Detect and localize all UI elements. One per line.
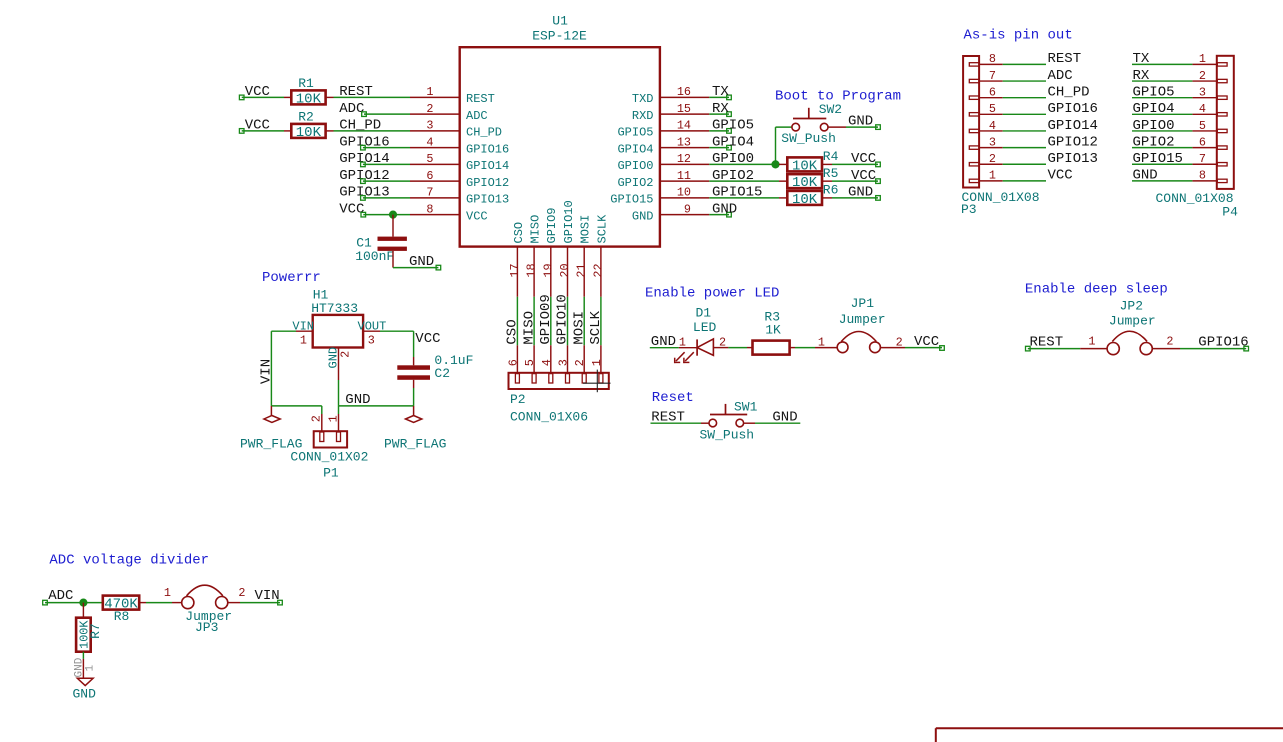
svg-text:3: 3 (989, 135, 996, 149)
resistor R6 (779, 183, 838, 208)
svg-text:MISO: MISO (529, 215, 543, 244)
svg-text:5: 5 (989, 102, 996, 116)
svg-text:SW_Push: SW_Push (700, 427, 755, 442)
node ADC label (divider) (43, 588, 74, 605)
jumper JP3 (164, 585, 246, 635)
P3 pin 6 CH_PD (979, 85, 1003, 99)
P4 pin 7 GPIO15 (1192, 152, 1216, 166)
wire H1 GND down (338, 380, 340, 406)
svg-text:2: 2 (309, 415, 323, 422)
svg-text:GPIO5: GPIO5 (617, 126, 653, 140)
P2 pin 1 (590, 345, 604, 373)
svg-text:SW2: SW2 (819, 102, 842, 117)
wire pin 10 to R6 (709, 197, 779, 199)
svg-text:12: 12 (677, 152, 691, 166)
P4 pin 6 GPIO2 (1192, 135, 1216, 149)
svg-text:GND: GND (632, 209, 654, 223)
svg-text:15: 15 (677, 102, 691, 116)
wire TX to P4 (1132, 63, 1192, 65)
wire ADC to R8 (45, 602, 103, 604)
U1 pin 6 GPIO12 (410, 169, 509, 190)
svg-text:6: 6 (1199, 135, 1206, 149)
jumper JP2 (1080, 298, 1180, 354)
svg-text:1K: 1K (765, 323, 781, 338)
svg-text:1: 1 (1199, 52, 1206, 66)
power label GND (R6) (848, 185, 880, 201)
svg-text:Reset: Reset (652, 390, 694, 406)
svg-text:REST: REST (1048, 51, 1082, 67)
svg-text:GPIO5: GPIO5 (712, 118, 754, 134)
power label VCC (R1) (239, 84, 270, 100)
resistor R2 (284, 110, 334, 141)
U1 pin 21 MOSI (575, 215, 593, 297)
svg-text:1: 1 (300, 334, 307, 348)
svg-text:VCC: VCC (851, 168, 876, 184)
U1 pin 12 GPIO0 (617, 152, 709, 173)
svg-text:GPIO4: GPIO4 (712, 134, 754, 150)
P2 pin 2 (573, 345, 587, 373)
U1 pin 13 GPIO4 (617, 135, 709, 156)
svg-text:GPIO2: GPIO2 (617, 176, 653, 190)
svg-text:100nF: 100nF (355, 249, 394, 264)
resistor R4 (779, 149, 839, 174)
svg-text:JP3: JP3 (195, 620, 218, 635)
node GPIO14 wire to pin 5 (339, 151, 410, 167)
svg-text:VCC: VCC (415, 331, 440, 347)
svg-text:2: 2 (989, 152, 996, 166)
svg-text:P2: P2 (510, 392, 526, 407)
wire VCC to R1 (242, 96, 284, 98)
node GPIO16 wire to pin 4 (339, 134, 410, 150)
wire P3 to ADC (1003, 80, 1046, 82)
U1 pin 5 GPIO14 (410, 152, 509, 173)
connector P1 CONN_01X02 body (314, 431, 347, 447)
svg-text:4: 4 (1199, 102, 1206, 116)
U1 pin 2 ADC (410, 102, 488, 123)
svg-text:GPIO0: GPIO0 (1133, 118, 1175, 134)
svg-text:LED: LED (693, 320, 717, 335)
svg-text:SCLK: SCLK (588, 310, 604, 344)
P3 pin 3 GPIO12 (979, 135, 1003, 149)
svg-text:GPIO10: GPIO10 (562, 200, 576, 243)
svg-text:ADC: ADC (339, 101, 364, 117)
wire R6 to GND (832, 197, 878, 199)
wire P3 to GPIO14 (1003, 130, 1046, 132)
svg-text:6: 6 (989, 85, 996, 99)
svg-text:Jumper: Jumper (1109, 313, 1156, 328)
wire junction to SW2 (776, 127, 793, 164)
capacitor C2 (397, 353, 473, 381)
svg-text:5: 5 (523, 359, 537, 366)
svg-text:14: 14 (677, 119, 691, 133)
wire GND to P4 (1132, 180, 1192, 182)
P1 pin 2 (309, 406, 323, 431)
svg-text:GPIO9: GPIO9 (545, 207, 559, 243)
node RX wire from pin 15 (709, 101, 731, 117)
wire JP1 to VCC (905, 347, 942, 349)
wire R5 to VCC (832, 180, 878, 182)
wire GND rail right segment (339, 405, 414, 407)
svg-text:MOSI: MOSI (579, 215, 593, 244)
wire P3 to GPIO13 (1003, 163, 1046, 165)
U1 pin 16 TXD (632, 85, 709, 106)
U1 pin 20 GPIO10 (558, 200, 576, 297)
svg-text:1: 1 (327, 415, 341, 422)
ground label GND (SW2) (848, 114, 880, 130)
svg-text:R4: R4 (823, 149, 839, 164)
node GPIO09 vertical wire (538, 294, 554, 345)
svg-text:VCC: VCC (466, 209, 488, 223)
svg-text:TX: TX (712, 84, 729, 100)
U1 pin 11 GPIO2 (617, 169, 709, 190)
svg-text:GPIO14: GPIO14 (466, 159, 509, 173)
wire D1 to R3 (728, 347, 747, 349)
svg-text:3: 3 (368, 334, 375, 348)
ground label GND (LED) (650, 334, 679, 350)
svg-text:7: 7 (989, 69, 996, 83)
wire GPIO15 to P4 (1132, 163, 1192, 165)
svg-text:GND: GND (73, 687, 97, 702)
svg-text:GPIO2: GPIO2 (1133, 134, 1175, 150)
svg-text:VCC: VCC (914, 334, 939, 350)
jumper JP1 (815, 296, 905, 353)
power label VCC (R5) (851, 168, 880, 184)
H1 pin 2 GND (326, 347, 352, 380)
wire GPIO5 to P4 (1132, 97, 1192, 99)
wire REST to JP2 (1028, 348, 1080, 350)
junction at VCC pin 8 (389, 211, 397, 219)
svg-text:GPIO16: GPIO16 (1048, 101, 1098, 117)
wire P3 to CH_PD (1003, 97, 1046, 99)
svg-text:GPIO16: GPIO16 (466, 142, 509, 156)
node CSO vertical wire (505, 297, 521, 346)
svg-text:ADC: ADC (466, 109, 488, 123)
node REST wire to pin 1 (334, 84, 411, 100)
svg-text:11: 11 (677, 169, 691, 183)
resistor R8 (103, 596, 146, 625)
svg-text:GPIO15: GPIO15 (610, 193, 653, 207)
svg-text:VIN: VIN (255, 588, 280, 604)
wire RX to P4 (1132, 80, 1192, 82)
svg-text:CSO: CSO (505, 319, 521, 344)
svg-text:1: 1 (1088, 335, 1095, 349)
svg-text:2: 2 (338, 351, 352, 358)
svg-text:9: 9 (684, 202, 691, 216)
svg-text:5: 5 (1199, 119, 1206, 133)
svg-text:R1: R1 (298, 76, 314, 91)
svg-text:GPIO15: GPIO15 (712, 185, 762, 201)
svg-text:GPIO15: GPIO15 (1133, 151, 1183, 167)
wire VCC down to C2 (413, 331, 415, 365)
svg-text:GND: GND (409, 254, 434, 270)
svg-text:1: 1 (818, 336, 825, 350)
connector P4 CONN_01X08 body (1217, 56, 1234, 189)
resistor R1 (284, 76, 334, 107)
svg-text:3: 3 (426, 119, 433, 133)
svg-text:10K: 10K (296, 125, 322, 141)
svg-text:As-is pin out: As-is pin out (964, 27, 1073, 43)
svg-text:RX: RX (1133, 68, 1150, 84)
node ADC wire to pin 2 (339, 101, 410, 117)
wire SW2 to GND (828, 126, 878, 128)
connector P2 CONN_01X06 body (509, 373, 609, 389)
svg-text:8: 8 (989, 52, 996, 66)
svg-text:8: 8 (1199, 169, 1206, 183)
node MISO vertical wire (521, 297, 537, 346)
junction GPIO0 (771, 160, 779, 168)
P2 pin 4 (540, 345, 554, 373)
wire P3 to GPIO16 (1003, 113, 1046, 115)
P4 pin 3 GPIO5 (1192, 85, 1216, 99)
node GPIO12 wire to pin 6 (339, 168, 410, 184)
svg-text:GND: GND (848, 185, 873, 201)
op-amp U1 ESP-12E body (460, 47, 660, 246)
svg-text:SW1: SW1 (734, 400, 758, 415)
svg-text:21: 21 (575, 263, 589, 277)
node GPIO13 wire to pin 7 (339, 185, 410, 201)
P2 pin 3 (557, 345, 571, 373)
wire GPIO0 to P4 (1132, 130, 1192, 132)
H1 pin 3 VOUT (358, 320, 387, 348)
svg-text:2: 2 (573, 359, 587, 366)
U1 pin 10 GPIO15 (610, 186, 709, 207)
P4 pin 2 RX (1192, 69, 1216, 83)
wire VOUT to VCC (380, 330, 414, 332)
svg-text:6: 6 (426, 169, 433, 183)
svg-text:VCC: VCC (1048, 168, 1073, 184)
svg-text:1: 1 (426, 85, 433, 99)
svg-text:GND: GND (848, 114, 873, 130)
wire GND to D1 (679, 347, 697, 349)
title block frame corner (936, 728, 1283, 742)
P4 pin 8 GND (1192, 169, 1216, 183)
wire VCC to R2 (242, 130, 284, 132)
svg-text:2: 2 (1166, 335, 1173, 349)
U1 pin 14 GPIO5 (617, 119, 709, 140)
P1 pin 1 (327, 406, 341, 431)
cursor crosshair (583, 370, 611, 393)
svg-text:1: 1 (164, 586, 171, 600)
svg-text:2: 2 (719, 336, 726, 350)
P3 pin 2 GPIO13 (979, 152, 1003, 166)
node CH_PD wire to pin 3 (334, 118, 411, 134)
svg-text:7: 7 (1199, 152, 1206, 166)
U1 pin 7 GPIO13 (410, 186, 509, 207)
wire JP3 to VIN (240, 602, 280, 604)
svg-text:R5: R5 (823, 166, 839, 181)
svg-text:REST: REST (339, 84, 373, 100)
svg-text:P3: P3 (961, 202, 977, 217)
junction ADC divider (79, 599, 87, 607)
svg-text:GPIO4: GPIO4 (1133, 101, 1175, 117)
wire VIN left and down (271, 331, 296, 406)
wire junction down to R7 (82, 603, 84, 618)
svg-text:2: 2 (896, 336, 903, 350)
P3 pin 4 GPIO14 (979, 119, 1003, 133)
wire JP2 to GPIO16 (1180, 348, 1246, 350)
svg-text:SW_Push: SW_Push (781, 131, 836, 146)
power label VCC (R4) (851, 151, 880, 167)
U1 pin 1 REST (410, 85, 495, 106)
wire P3 to REST (1003, 63, 1046, 65)
svg-text:2: 2 (1199, 69, 1206, 83)
svg-text:CH_PD: CH_PD (339, 118, 381, 134)
U1 pin 18 MISO (525, 215, 543, 297)
svg-text:C2: C2 (434, 366, 450, 381)
svg-text:4: 4 (540, 359, 554, 366)
capacitor C1 (355, 236, 407, 264)
svg-text:GPIO12: GPIO12 (1048, 134, 1098, 150)
wire R8 to JP3 (146, 602, 172, 604)
svg-text:R2: R2 (298, 110, 314, 125)
svg-text:GPIO13: GPIO13 (466, 193, 509, 207)
P4 pin 5 GPIO0 (1192, 119, 1216, 133)
svg-text:GPIO2: GPIO2 (712, 168, 754, 184)
svg-text:GPIO09: GPIO09 (538, 294, 554, 344)
svg-text:SCLK: SCLK (595, 214, 609, 244)
node VCC wire to pin 8 (339, 201, 410, 217)
U1 pin 9 GND (632, 202, 709, 223)
svg-text:10K: 10K (792, 158, 818, 174)
svg-text:10K: 10K (792, 175, 818, 191)
svg-text:Powerrr: Powerrr (262, 270, 321, 286)
resistor R7 (76, 618, 103, 652)
wire junction to C1 (392, 215, 394, 237)
svg-text:CSO: CSO (512, 222, 526, 244)
svg-text:GPIO5: GPIO5 (1133, 84, 1175, 100)
P3 pin 8 REST (979, 52, 1003, 66)
P3 pin 7 ADC (979, 69, 1003, 83)
wire P3 to VCC (1003, 180, 1046, 182)
connector P3 CONN_01X08 body (963, 56, 979, 188)
P2 pin 5 (523, 345, 537, 373)
wire C2 to GND rail (413, 380, 415, 406)
U1 pin 19 GPIO9 (541, 207, 559, 296)
wire GND rail left segment (271, 405, 321, 407)
P4 pin 1 TX (1192, 52, 1216, 66)
node VIN label (divider) (255, 588, 283, 605)
svg-text:ESP-12E: ESP-12E (532, 29, 587, 44)
H1 pin 1 VIN (292, 320, 314, 348)
P4 pin 4 GPIO4 (1192, 102, 1216, 116)
svg-text:2: 2 (238, 586, 245, 600)
svg-text:5: 5 (426, 152, 433, 166)
U1 pin 17 CSO (508, 222, 526, 297)
node GPIO16 label (deep sleep) (1198, 334, 1248, 351)
U1 pin 4 GPIO16 (410, 135, 509, 156)
node REST label (deep sleep) (1026, 334, 1064, 351)
svg-text:GPIO0: GPIO0 (617, 159, 653, 173)
svg-text:GPIO4: GPIO4 (617, 142, 653, 156)
svg-text:ADC voltage divider: ADC voltage divider (49, 552, 209, 568)
wire C1 to GND (393, 251, 438, 268)
wire P3 to GPIO12 (1003, 147, 1046, 149)
svg-text:10: 10 (677, 186, 691, 200)
svg-text:17: 17 (508, 263, 522, 277)
ground label GND (C1) (409, 254, 441, 270)
svg-text:VIN: VIN (259, 359, 275, 384)
svg-text:ADC: ADC (1048, 68, 1073, 84)
regulator H1 HT7333 body (311, 288, 363, 348)
svg-text:VCC: VCC (851, 151, 876, 167)
svg-text:R7: R7 (88, 623, 103, 639)
wire R4 to VCC (832, 163, 878, 165)
svg-text:CONN_01X02: CONN_01X02 (290, 449, 368, 464)
svg-text:18: 18 (525, 263, 539, 277)
U1 pin 15 RXD (632, 102, 709, 123)
svg-text:GPIO12: GPIO12 (466, 176, 509, 190)
svg-text:TXD: TXD (632, 92, 654, 106)
switch SW2 SW_Push (781, 102, 842, 146)
svg-text:1: 1 (679, 336, 686, 350)
node SCLK vertical wire (588, 297, 604, 346)
U1 pin 8 VCC (410, 202, 488, 223)
node GND wire from pin 9 (709, 201, 737, 217)
svg-text:16: 16 (677, 85, 691, 99)
node REST label (reset) (651, 409, 702, 425)
svg-text:CONN_01X06: CONN_01X06 (510, 409, 588, 424)
svg-text:3: 3 (557, 359, 571, 366)
svg-text:MOSI: MOSI (571, 311, 587, 345)
svg-text:4: 4 (989, 119, 996, 133)
svg-text:7: 7 (426, 186, 433, 200)
svg-text:1: 1 (989, 169, 996, 183)
svg-text:Jumper: Jumper (839, 312, 886, 327)
svg-text:ADC: ADC (48, 588, 73, 604)
svg-text:GPIO10: GPIO10 (555, 294, 571, 344)
svg-text:GPIO16: GPIO16 (1198, 334, 1248, 350)
svg-text:4: 4 (426, 135, 433, 149)
svg-text:20: 20 (558, 263, 572, 277)
wire GPIO2 to P4 (1132, 147, 1192, 149)
node GPIO0 wire from pin 12 (709, 151, 779, 167)
svg-text:22: 22 (591, 263, 605, 277)
P3 pin 1 VCC (979, 169, 1003, 183)
svg-text:REST: REST (466, 92, 495, 106)
node GPIO4 wire from pin 13 (709, 134, 754, 150)
wire GPIO4 to P4 (1132, 113, 1192, 115)
svg-text:Enable deep sleep: Enable deep sleep (1025, 281, 1168, 297)
svg-text:R6: R6 (823, 183, 839, 198)
diode D1 LED (674, 305, 728, 363)
power flag PWR_FLAG right (384, 406, 446, 452)
node GPIO10 vertical wire (555, 294, 571, 345)
svg-text:MISO: MISO (521, 311, 537, 345)
wire R3 to JP1 (795, 347, 815, 349)
wire pin 11 to R5 (709, 180, 779, 182)
svg-text:RXD: RXD (632, 109, 654, 123)
U1 pin 3 CH_PD (410, 119, 502, 140)
svg-text:CH_PD: CH_PD (1048, 84, 1090, 100)
svg-text:GND: GND (712, 201, 737, 217)
svg-text:6: 6 (506, 359, 520, 366)
svg-text:19: 19 (541, 263, 555, 277)
ground symbol (77, 678, 93, 685)
P2 pin 6 (506, 345, 520, 373)
svg-text:D1: D1 (696, 305, 712, 320)
svg-text:10K: 10K (792, 192, 818, 208)
svg-text:2: 2 (426, 102, 433, 116)
svg-text:CH_PD: CH_PD (466, 126, 502, 140)
resistor R3 (747, 309, 795, 354)
svg-text:1: 1 (590, 359, 604, 366)
svg-text:HT7333: HT7333 (311, 301, 358, 316)
wire SW1 to GND (755, 422, 800, 424)
svg-text:PWR_FLAG: PWR_FLAG (384, 437, 446, 452)
svg-text:P4: P4 (1222, 204, 1238, 219)
svg-text:GPIO0: GPIO0 (712, 151, 754, 167)
svg-text:10K: 10K (296, 91, 322, 107)
